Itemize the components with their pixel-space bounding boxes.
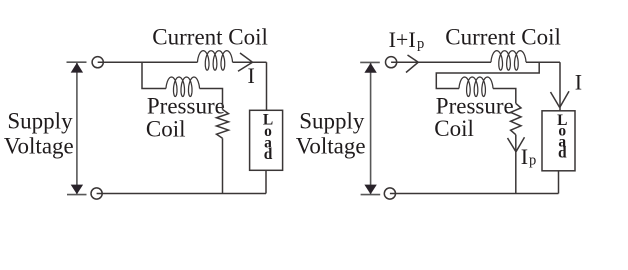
terminal top-left bbox=[92, 57, 103, 68]
wire after coil (right) bbox=[526, 61, 560, 63]
svg-text:Pressure: Pressure bbox=[147, 94, 225, 119]
wire load to bottom (left) bbox=[265, 170, 267, 193]
current coil (left) bbox=[198, 51, 233, 70]
svg-text:d: d bbox=[264, 146, 273, 163]
svg-text:Supply: Supply bbox=[299, 109, 365, 134]
current coil (right) bbox=[491, 51, 526, 70]
arrow I+Ip (right) bbox=[406, 55, 418, 73]
svg-text:p: p bbox=[529, 153, 536, 169]
arrow I into load (right) bbox=[551, 91, 570, 107]
svg-text:Supply: Supply bbox=[7, 109, 73, 134]
terminal top-right circuit bbox=[386, 57, 397, 68]
terminal bottom-left bbox=[91, 188, 102, 199]
wire resistor to bottom (right) bbox=[515, 135, 517, 194]
wire down to load (left) bbox=[266, 62, 268, 110]
wire after coil (left) bbox=[233, 61, 267, 63]
current arrow I (left) bbox=[238, 53, 253, 71]
load box (right) bbox=[542, 111, 575, 171]
wire top (right circuit) bbox=[391, 61, 491, 63]
svg-text:Pressure: Pressure bbox=[436, 93, 514, 118]
svg-text:I: I bbox=[521, 144, 528, 169]
wire bottom (right circuit) bbox=[390, 193, 559, 195]
svg-text:Coil: Coil bbox=[434, 116, 474, 141]
svg-text:Voltage: Voltage bbox=[296, 134, 366, 159]
terminal bottom-right circuit bbox=[384, 188, 395, 199]
wire coil to resistor (left) bbox=[200, 89, 223, 110]
pressure branch connect (right) bbox=[436, 62, 539, 88]
arrow Ip (right) bbox=[508, 137, 525, 152]
wire bottom (left circuit) bbox=[97, 193, 266, 195]
wire resistor to bottom (left) bbox=[222, 138, 224, 193]
svg-text:Current Coil: Current Coil bbox=[445, 25, 561, 50]
svg-text:I: I bbox=[248, 63, 255, 88]
pressure coil (right) bbox=[459, 77, 493, 97]
supply voltage double arrow (left) bbox=[67, 62, 87, 194]
svg-text:Coil: Coil bbox=[146, 116, 186, 141]
text Load (left) bbox=[263, 111, 273, 163]
wire top (left circuit) bbox=[98, 61, 198, 63]
pressure coil (left) bbox=[166, 77, 200, 97]
resistor (right) bbox=[511, 103, 521, 134]
svg-text:Voltage: Voltage bbox=[4, 134, 74, 159]
svg-text:d: d bbox=[558, 145, 567, 162]
svg-text:p: p bbox=[417, 36, 424, 52]
resistor (left) bbox=[217, 110, 229, 139]
svg-text:I+I: I+I bbox=[389, 27, 416, 52]
svg-text:Current Coil: Current Coil bbox=[152, 25, 268, 50]
supply voltage double arrow (right) bbox=[360, 62, 380, 194]
wire down to load (right) bbox=[559, 62, 561, 111]
text Load (right) bbox=[557, 112, 567, 162]
svg-text:I: I bbox=[575, 69, 582, 94]
pressure branch vertical (left) bbox=[142, 62, 166, 88]
load box (left) bbox=[250, 110, 283, 170]
wire load to bottom (right) bbox=[558, 171, 560, 194]
wire coil to resistor (right) bbox=[493, 89, 516, 104]
